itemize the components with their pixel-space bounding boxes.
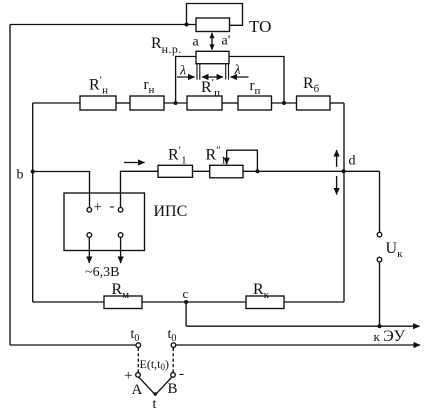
svg-text:А: А — [132, 382, 143, 398]
resistor TO (heater) — [196, 18, 230, 32]
svg-text:Rк: Rк — [253, 281, 270, 301]
wire: top horizontal from outer-left corner to TO heater — [10, 24, 196, 26]
svg-text:rп: rп — [250, 78, 261, 97]
arrow: R''_1 slider tap — [226, 150, 228, 164]
wire: from b vertical to R_м — [33, 301, 104, 303]
arrow down near d — [336, 176, 338, 195]
wire: from U_к lower contact down to к ЭУ line — [379, 262, 381, 326]
svg-text:E(t,t0): E(t,t0) — [140, 357, 170, 372]
svg-text:Rб: Rб — [303, 75, 320, 95]
svg-text:λ: λ — [179, 64, 186, 79]
svg-text:ИПС: ИПС — [154, 203, 188, 220]
wire: dashed right thermocouple lead — [172, 348, 174, 373]
wire from R''_1 to U_к branch corner — [243, 170, 380, 172]
svg-text:-: - — [110, 199, 115, 215]
node c — [184, 300, 188, 304]
arrow double between contacts — [202, 76, 223, 78]
wire between r_п and R_б — [272, 102, 297, 104]
arrow: current direction — [124, 162, 145, 164]
svg-text:-: - — [179, 366, 184, 382]
terminal: U_к upper contact — [377, 232, 382, 237]
terminal t_0 left — [136, 343, 141, 348]
svg-text:a: a — [193, 35, 200, 50]
wire: second к ЭУ line left part — [10, 344, 136, 346]
arrow: output left down — [88, 238, 90, 263]
svg-text:d: d — [349, 154, 356, 169]
slider contact lines left — [196, 64, 198, 80]
svg-text:t: t — [153, 397, 157, 412]
node: thermocouple hot junction — [154, 392, 157, 395]
terminal: U_к lower contact — [377, 257, 382, 262]
wire: first к ЭУ line with arrow — [186, 325, 419, 327]
svg-text:Rм: Rм — [112, 281, 130, 301]
wire: U_к branch down to switch — [379, 171, 381, 232]
node: junction of U_к branch on к ЭУ line — [378, 324, 382, 328]
svg-text:Uк: Uк — [386, 240, 404, 260]
arrow: output right down — [120, 238, 122, 263]
svg-text:λ: λ — [234, 63, 241, 78]
svg-text:c: c — [183, 286, 189, 301]
wire: dashed left thermocouple lead — [137, 348, 139, 373]
resistor R'_1 — [158, 165, 193, 177]
svg-text:a': a' — [222, 34, 231, 49]
wire between R'_н and r_н — [116, 102, 130, 104]
resistor r_п — [238, 96, 272, 110]
svg-text:t0: t0 — [131, 327, 140, 344]
svg-text:В: В — [168, 381, 178, 397]
node: junction dot r_н / R'_п — [174, 101, 178, 105]
arrow lambda right — [231, 76, 249, 78]
terminal: IPS minus — [118, 208, 123, 213]
svg-text:R″1: R″1 — [206, 145, 227, 167]
svg-text:t0: t0 — [168, 327, 177, 344]
wire between R'_1 and R''_1 — [193, 170, 210, 172]
svg-text:R′п: R′п — [201, 77, 220, 99]
node: tap junction dot — [255, 169, 259, 173]
terminal: IPS output right — [118, 233, 123, 238]
wire between r_н and R'_п — [164, 102, 187, 104]
arrow a-a' (double headed between heater and slider) — [211, 33, 213, 50]
wire: slider left arm down to node between r_н and R'_п — [176, 57, 196, 104]
terminal t_0 right — [171, 343, 176, 348]
resistor R'_п — [187, 96, 222, 110]
wire from IPS minus up and to R'_1 — [121, 171, 159, 207]
thermocouple junction V — [139, 377, 172, 395]
svg-text:ТО: ТО — [249, 17, 271, 36]
wire: tap connection to main wire — [227, 150, 258, 171]
wire: row1 left segment to R'_н — [33, 102, 80, 104]
wire: second к ЭУ line right part with arrow — [176, 344, 420, 346]
terminal: IPS output left — [87, 233, 92, 238]
resistor R''_1 (trimmer) — [210, 165, 243, 178]
node d — [342, 169, 346, 173]
svg-text:~6,3В: ~6,3В — [85, 265, 119, 280]
slider box of rheochord — [196, 51, 229, 63]
wire from R_м to R_к through c — [142, 301, 246, 303]
svg-text:R′н: R′н — [89, 75, 108, 97]
wire: right vertical from row1 down to R_к row — [343, 103, 345, 302]
svg-text:R′1: R′1 — [168, 145, 187, 167]
wire from R_к to right vertical — [284, 301, 344, 303]
node: junction dot left of TO heater — [185, 23, 189, 27]
box ИПС (power supply) — [64, 193, 145, 251]
wire: from c down to first к ЭУ line — [185, 302, 187, 326]
svg-text:rн: rн — [144, 77, 155, 96]
svg-text:b: b — [17, 168, 24, 183]
terminal: thermocouple left — [136, 373, 141, 378]
arrow lambda left — [177, 76, 195, 78]
svg-text:Rн.р.: Rн.р. — [151, 35, 182, 56]
svg-text:+: + — [94, 200, 102, 216]
slider contact lines right — [225, 64, 227, 80]
terminal: thermocouple right — [171, 373, 176, 378]
wire from R_б to right vertical — [330, 102, 344, 104]
wire from b to IPS plus — [33, 172, 90, 208]
resistor R_м — [104, 296, 142, 309]
wire: outer left vertical — [9, 25, 11, 346]
resistor r_н — [130, 96, 164, 110]
wire: heater loop over TO — [187, 4, 243, 26]
node: junction dot r_п / R_б — [282, 101, 286, 105]
wire: slider right arm down to node between r_п and R_б — [229, 57, 284, 104]
svg-text:к ЭУ: к ЭУ — [374, 328, 406, 345]
resistor R_б — [297, 96, 331, 110]
resistor R'_н — [80, 96, 116, 110]
wire between R'_п and r_п — [222, 102, 238, 104]
terminal: IPS plus — [87, 208, 92, 213]
wire: left vertical through b — [32, 103, 34, 302]
node b — [31, 170, 35, 174]
resistor R_к — [246, 296, 284, 309]
arrow up near d — [336, 150, 338, 167]
